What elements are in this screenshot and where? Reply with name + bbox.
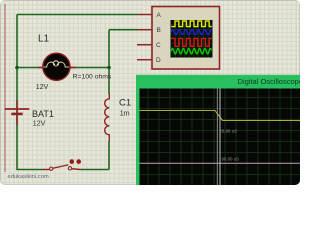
svg-text:12V: 12V (36, 84, 49, 91)
svg-text:1m: 1m (120, 110, 130, 117)
svg-text:L1: L1 (38, 33, 50, 44)
svg-text:R=100 ohms: R=100 ohms (73, 73, 112, 80)
svg-text:26.99 uS: 26.99 uS (220, 128, 238, 133)
svg-text:B: B (157, 27, 161, 34)
svg-text:C: C (156, 42, 161, 49)
svg-text:Digital Oscilloscope: Digital Oscilloscope (238, 77, 300, 86)
svg-text:edukasikini.com: edukasikini.com (8, 174, 49, 180)
svg-text:A: A (157, 12, 162, 19)
svg-text:98.00 uS: 98.00 uS (222, 157, 240, 162)
svg-text:D: D (156, 57, 161, 64)
svg-text:BAT1: BAT1 (32, 109, 54, 119)
svg-text:C1: C1 (119, 97, 131, 108)
svg-text:12V: 12V (33, 121, 46, 128)
